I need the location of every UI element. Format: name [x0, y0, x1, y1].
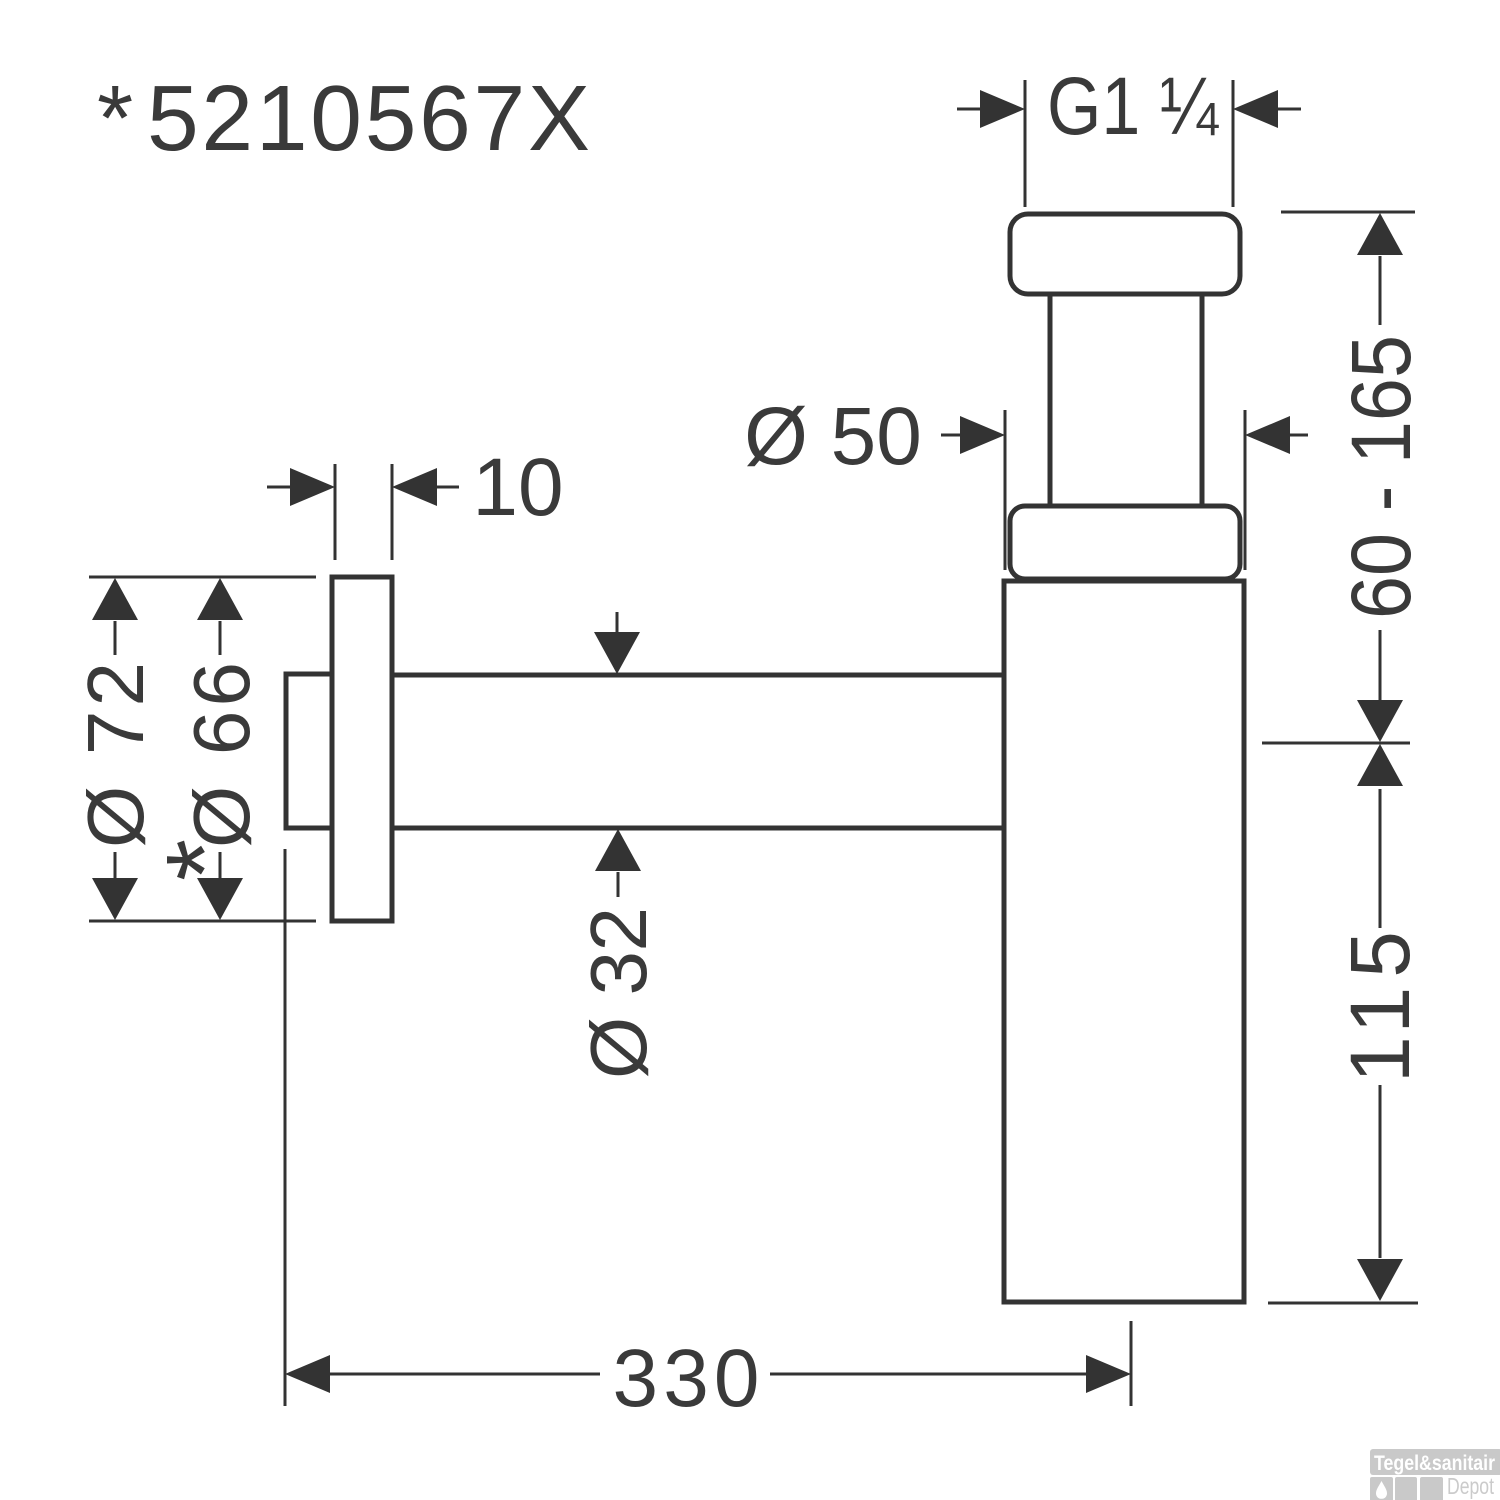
svg-text:Ø 50: Ø 50: [744, 391, 922, 482]
svg-text:*5210567X: *5210567X: [97, 66, 593, 170]
svg-text:*: *: [143, 839, 264, 881]
svg-text:115: 115: [1333, 931, 1427, 1083]
svg-text:Depot: Depot: [1447, 1473, 1494, 1499]
svg-text:Ø 72: Ø 72: [71, 662, 160, 848]
svg-text:10: 10: [472, 442, 563, 533]
svg-text:Tegel&sanitair: Tegel&sanitair: [1374, 1452, 1495, 1475]
svg-text:60 - 165: 60 - 165: [1334, 335, 1428, 619]
svg-text:Ø 66: Ø 66: [177, 662, 266, 848]
svg-text:330: 330: [613, 1333, 760, 1424]
svg-text:Ø 32: Ø 32: [574, 907, 663, 1079]
svg-text:G1 ¼: G1 ¼: [1047, 61, 1219, 152]
